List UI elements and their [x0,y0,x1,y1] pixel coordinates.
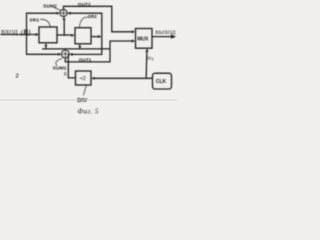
wire MUX output [152,34,176,38]
svg-text:ВЫХОД: ВЫХОД [155,30,175,36]
svg-text:2: 2 [15,73,19,79]
wire feedback line to register bottoms [42,43,110,49]
wire SR2 output to feedback node [91,35,101,38]
wire input bypass down to SUM1 left [27,35,62,56]
svg-text:Фиг. 5: Фиг. 5 [77,107,98,115]
adder SUM2 [60,9,67,16]
clock CLK [153,73,172,89]
svg-text:Sck: Sck [147,56,154,62]
shift register SR1 [39,27,57,43]
scan artifact faint line [0,100,177,101]
svg-text:OUT1: OUT1 [79,57,92,62]
wire SUM2 output OUT2 to MUX top input [64,6,136,33]
wire SR2 feedback up to SUM2 right input [67,12,102,37]
wire select Sck to MUX [145,49,148,79]
multiplexer MUX [136,29,153,49]
leader DIV label [83,85,86,95]
node input junction [26,34,28,36]
wire input bypass up to SUM2 left [27,12,60,35]
shift register SR2 [75,28,91,44]
svg-text:CLK: CLK [156,79,167,85]
svg-text:(В): (В) [21,27,31,36]
divider block div2 [76,71,92,85]
leader SUM1 label [56,58,63,66]
wire SR1 to SR2 [57,34,75,37]
wire input BXOD line [1,33,39,36]
leader SR2 label [79,17,88,27]
svg-text:SR2: SR2 [88,14,97,19]
svg-text:OUT2: OUT2 [78,2,91,7]
svg-text:DIV: DIV [77,98,87,104]
node select junction [145,77,147,79]
wire inter-stage up to SUM2 bottom [62,17,65,35]
svg-text:SR1: SR1 [29,17,39,23]
svg-text:SUM2: SUM2 [43,3,57,9]
wire CLK to DIV [91,77,152,80]
wire DIV output K to SUM1 [68,54,75,78]
svg-text:MUX: MUX [137,36,149,42]
leader SUM2 label [53,7,60,10]
leader SR1 label [40,19,50,26]
svg-text:ВХОД: ВХОД [1,30,18,36]
wire SUM1 output OUT1 to MUX bottom input [65,39,135,62]
svg-text:SUM1: SUM1 [53,66,67,72]
svg-text:÷2: ÷2 [80,76,86,82]
adder SUM1 [61,50,69,58]
node inter-stage junction [63,34,65,36]
wire SR2 feedback down to SUM1 right input [69,37,101,56]
